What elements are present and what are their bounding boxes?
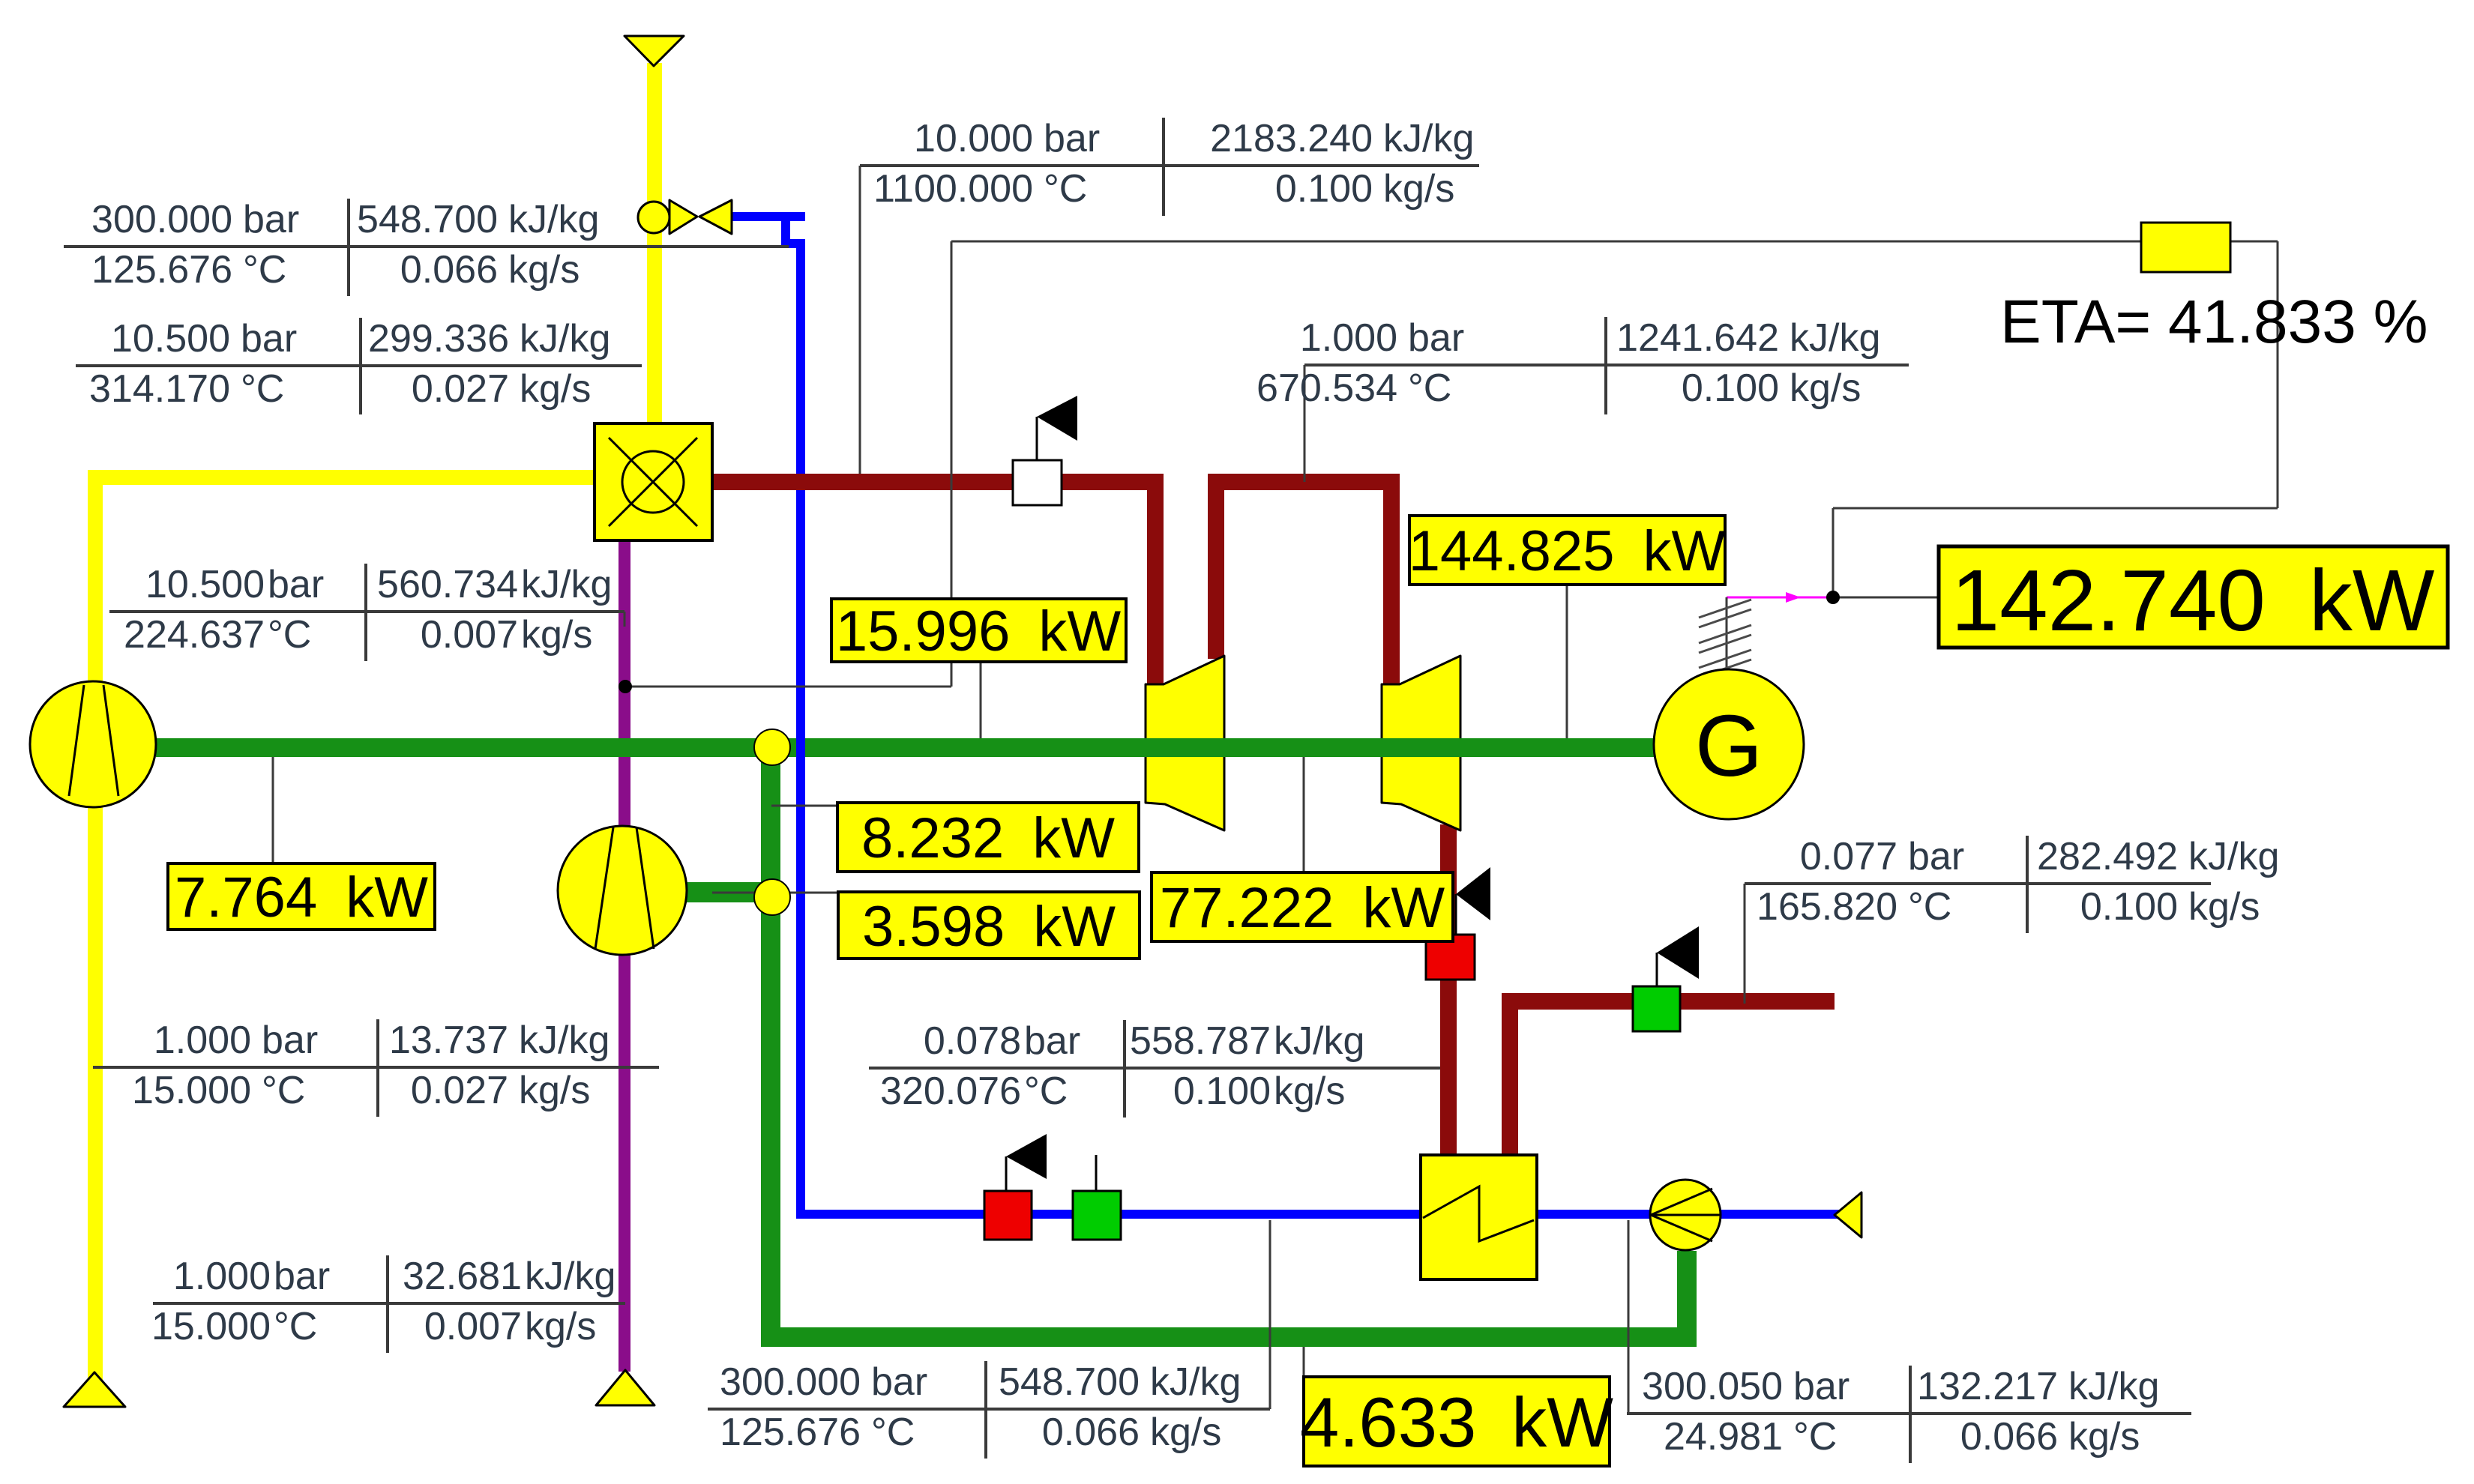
label 144.825 kW turbine2 power bbox=[1409, 516, 1726, 585]
svg-text:4.633 kW: 4.633 kW bbox=[1300, 1383, 1613, 1462]
node shaft junction yellow circle 1 bbox=[754, 729, 790, 765]
wire green feedwater bottom horizontal bbox=[761, 1327, 1697, 1347]
svg-text:°C: °C bbox=[1044, 167, 1087, 211]
condenser box bbox=[1421, 1155, 1537, 1279]
node measurement line B10 divider bbox=[1909, 1366, 1912, 1463]
node measurement line B4 underline bbox=[1304, 364, 1909, 367]
svg-text:558.787: 558.787 bbox=[1130, 1019, 1271, 1063]
wire B3 drop line to flue pipe bbox=[859, 166, 861, 474]
svg-text:kJ/kg: kJ/kg bbox=[520, 317, 610, 361]
node measurement line B8 underline bbox=[869, 1067, 1440, 1070]
svg-text:125.676: 125.676 bbox=[91, 248, 232, 292]
node measurement line B3 divider bbox=[1162, 118, 1165, 216]
green valve on reheat pipe bbox=[1633, 986, 1680, 1031]
pump circle bbox=[1650, 1180, 1721, 1250]
label 4.633 kW pump power bbox=[1300, 1377, 1613, 1466]
node measurement line B9 underline bbox=[708, 1408, 1270, 1411]
node stream values B4 bbox=[1256, 316, 1880, 410]
node stream values B6 bbox=[132, 1019, 610, 1112]
svg-text:0.066: 0.066 bbox=[400, 248, 498, 292]
yellow triangle exhaust sink bottom bbox=[596, 1370, 654, 1405]
svg-text:300.000: 300.000 bbox=[91, 198, 232, 241]
wire green branch vertical bbox=[761, 747, 780, 1337]
wire dark red pipe turbine1 outlet up bbox=[1208, 474, 1224, 659]
wire label line green branch to 8.232 label bbox=[771, 805, 840, 807]
node measurement line B11 underline bbox=[1745, 882, 2211, 885]
node measurement line B5 divider bbox=[364, 564, 367, 661]
wire dark red pipe down to turbine 2 bbox=[1383, 482, 1400, 686]
wire label line feedwater pipe to 4.633 label bbox=[1303, 1347, 1305, 1379]
node black dot generator power node bbox=[1826, 591, 1840, 604]
svg-text:kg/s: kg/s bbox=[2188, 885, 2260, 929]
node stream values B10 bbox=[1642, 1365, 2159, 1459]
flag on white valve bbox=[1037, 396, 1077, 460]
svg-text:125.676: 125.676 bbox=[720, 1411, 861, 1454]
node stream values B11 bbox=[1757, 835, 2279, 929]
svg-text:0.027: 0.027 bbox=[412, 367, 509, 411]
svg-text:320.076: 320.076 bbox=[880, 1070, 1021, 1113]
wire efficiency meter right vertical bbox=[2277, 241, 2279, 508]
fuel valve bowtie bbox=[669, 200, 732, 234]
node measurement line B7 divider bbox=[386, 1255, 389, 1353]
svg-text:1.000: 1.000 bbox=[173, 1255, 271, 1298]
svg-text:548.700: 548.700 bbox=[357, 198, 498, 241]
node measurement line B4 divider bbox=[1604, 317, 1607, 414]
wire label line turbine2 power to shaft bbox=[1566, 585, 1568, 738]
label 15.996 kW turbine1 extraction power bbox=[831, 599, 1126, 663]
svg-text:kg/s: kg/s bbox=[1274, 1070, 1345, 1113]
svg-text:0.077: 0.077 bbox=[1800, 835, 1897, 878]
yellow triangle water source right bbox=[1835, 1192, 1861, 1237]
wire B4 drop line to reheat pipe bbox=[1304, 365, 1306, 482]
svg-text:10.500: 10.500 bbox=[111, 317, 230, 361]
svg-text:7.764 kW: 7.764 kW bbox=[175, 866, 428, 929]
wire dark red pipe condenser outlet up bbox=[1502, 1001, 1518, 1155]
wire blue water pipe upper vertical bbox=[781, 212, 790, 248]
yellow triangle air source bottom left bbox=[64, 1372, 125, 1407]
svg-text:10.500: 10.500 bbox=[145, 563, 265, 606]
svg-text:0.078: 0.078 bbox=[924, 1019, 1021, 1063]
node measurement line B1 divider bbox=[347, 199, 350, 296]
svg-text:282.492: 282.492 bbox=[2037, 835, 2178, 878]
wire dark red pipe reheat horizontal to end bbox=[1502, 993, 1835, 1010]
svg-text:kg/s: kg/s bbox=[525, 1305, 596, 1348]
wire green shaft horizontal bbox=[156, 738, 1661, 757]
svg-text:kg/s: kg/s bbox=[1790, 367, 1861, 410]
svg-text:G: G bbox=[1695, 697, 1763, 794]
node measurement line B8 divider bbox=[1123, 1020, 1126, 1117]
svg-text:kJ/kg: kJ/kg bbox=[519, 1019, 610, 1062]
svg-text:°C: °C bbox=[1408, 367, 1451, 410]
svg-text:15.000: 15.000 bbox=[151, 1305, 271, 1348]
svg-text:°C: °C bbox=[241, 367, 284, 411]
wire yellow fuel pipe vertical top bbox=[647, 63, 662, 423]
svg-text:0.100: 0.100 bbox=[1173, 1070, 1271, 1113]
svg-text:2183.240: 2183.240 bbox=[1210, 117, 1373, 160]
wire green pump riser vertical bbox=[1677, 1251, 1697, 1347]
wire green stub compressor2 to node bbox=[683, 882, 772, 902]
svg-text:77.222 kW: 77.222 kW bbox=[1160, 876, 1445, 940]
svg-text:15.996 kW: 15.996 kW bbox=[836, 600, 1121, 663]
node measurement line B2 divider bbox=[359, 318, 362, 414]
ground hatch marks above generator bbox=[1699, 600, 1751, 678]
yellow triangle fuel source top bbox=[624, 36, 684, 66]
svg-text:kg/s: kg/s bbox=[508, 248, 580, 292]
wire efficiency meter left vertical to purple pipe bbox=[951, 241, 953, 687]
wire B9 line up to blue pipe bbox=[1269, 1220, 1271, 1409]
flag on red exhaust valve bbox=[1456, 867, 1490, 935]
svg-text:kJ/kg: kJ/kg bbox=[1150, 1360, 1241, 1404]
node shaft junction yellow circle 2 bbox=[754, 879, 790, 915]
node stream values B2 bbox=[89, 317, 610, 411]
wire dark red flue gas pipe from combustion chamber bbox=[712, 474, 1164, 490]
svg-text:548.700: 548.700 bbox=[999, 1360, 1140, 1404]
flag on red condensate valve bbox=[1006, 1134, 1047, 1191]
node measurement line B3 underline bbox=[860, 164, 1479, 167]
svg-text:bar: bar bbox=[1908, 835, 1964, 878]
svg-text:kg/s: kg/s bbox=[519, 1069, 590, 1112]
svg-text:142.740 kW: 142.740 kW bbox=[1951, 552, 2435, 649]
wire label line node2 to 3.598 label bbox=[712, 892, 840, 894]
svg-text:kg/s: kg/s bbox=[2068, 1415, 2140, 1459]
node measurement line B7 underline bbox=[153, 1302, 625, 1305]
node stream values B3 bbox=[873, 117, 1474, 211]
svg-text:0.066: 0.066 bbox=[1042, 1411, 1140, 1454]
svg-text:1100.000: 1100.000 bbox=[873, 167, 1033, 211]
svg-text:bar: bar bbox=[243, 198, 299, 241]
svg-text:bar: bar bbox=[241, 317, 297, 361]
wire B11 drop line to exhaust steam pipe end bbox=[1744, 884, 1746, 1004]
svg-text:0.007: 0.007 bbox=[424, 1305, 522, 1348]
svg-text:0.066: 0.066 bbox=[1960, 1415, 2058, 1459]
wire efficiency meter drop to power node bbox=[1832, 508, 1835, 597]
red valve on condensate line bbox=[984, 1191, 1032, 1240]
svg-text:300.050: 300.050 bbox=[1642, 1365, 1783, 1408]
svg-text:kJ/kg: kJ/kg bbox=[2188, 835, 2279, 878]
node measurement line B2 underline bbox=[76, 364, 642, 367]
magenta arrow tick on generator power line bbox=[1786, 592, 1801, 603]
wire generator top vertical line bbox=[1726, 597, 1728, 671]
node measurement line B9 divider bbox=[984, 1361, 987, 1459]
svg-text:°C: °C bbox=[274, 1305, 317, 1348]
svg-text:kg/s: kg/s bbox=[1150, 1411, 1221, 1454]
white square valve on flue pipe bbox=[1013, 460, 1062, 505]
svg-text:°C: °C bbox=[1024, 1070, 1068, 1113]
svg-text:1.000: 1.000 bbox=[1300, 316, 1397, 360]
label 8.232 kW branch power bbox=[837, 803, 1139, 872]
red valve on turbine exhaust pipe bbox=[1426, 935, 1475, 980]
efficiency meter yellow box bbox=[2141, 223, 2230, 272]
svg-text:13.737: 13.737 bbox=[389, 1019, 508, 1062]
svg-text:1241.642: 1241.642 bbox=[1616, 316, 1779, 360]
node black dot on purple pipe bbox=[618, 680, 632, 693]
svg-text:3.598 kW: 3.598 kW bbox=[862, 895, 1116, 959]
wire dark red pipe horizontal between turbines bbox=[1208, 474, 1400, 490]
wire label line turbine1 power to shaft bbox=[980, 662, 982, 738]
svg-text:24.981: 24.981 bbox=[1664, 1415, 1783, 1459]
flag on green reheat valve bbox=[1657, 926, 1699, 986]
wire blue condensate bottom horizontal bbox=[796, 1210, 1841, 1219]
svg-text:15.000: 15.000 bbox=[132, 1069, 251, 1112]
node measurement line B1 underline bbox=[64, 245, 789, 248]
svg-text:kg/s: kg/s bbox=[520, 367, 591, 411]
svg-text:bar: bar bbox=[268, 563, 324, 606]
svg-text:0.027: 0.027 bbox=[411, 1069, 508, 1112]
svg-text:kJ/kg: kJ/kg bbox=[1790, 316, 1880, 360]
wire efficiency meter horizontal line bbox=[951, 241, 2141, 243]
node stream values B5 bbox=[124, 563, 612, 657]
turbine T2 bbox=[1382, 656, 1460, 830]
node stream values B8 bbox=[880, 1019, 1364, 1113]
svg-text:0.100: 0.100 bbox=[1682, 367, 1779, 410]
svg-text:299.336: 299.336 bbox=[368, 317, 509, 361]
wire efficiency meter horizontal to purple pipe node bbox=[625, 686, 951, 688]
svg-text:0.007: 0.007 bbox=[421, 613, 518, 657]
node stream values B7 bbox=[151, 1255, 616, 1348]
wire purple exhaust pipe vertical bbox=[618, 540, 630, 1372]
wire label line shaft to 7.764 label bbox=[272, 757, 274, 863]
wire label line shaft to 77.222 label bbox=[1303, 757, 1305, 872]
svg-text:10.000: 10.000 bbox=[914, 117, 1033, 160]
wire blue water pipe jog bbox=[781, 239, 805, 248]
wire efficiency meter horizontal toward generator node bbox=[1833, 507, 2278, 510]
svg-text:kJ/kg: kJ/kg bbox=[525, 1255, 616, 1298]
svg-text:ETA= 41.833 %: ETA= 41.833 % bbox=[2000, 288, 2428, 356]
svg-text:°C: °C bbox=[871, 1411, 915, 1454]
svg-text:8.232 kW: 8.232 kW bbox=[861, 806, 1115, 870]
svg-text:224.637: 224.637 bbox=[124, 613, 265, 657]
svg-text:bar: bar bbox=[1024, 1019, 1080, 1063]
svg-text:314.170: 314.170 bbox=[89, 367, 230, 411]
svg-text:144.825 kW: 144.825 kW bbox=[1409, 519, 1726, 583]
svg-text:kJ/kg: kJ/kg bbox=[1383, 117, 1474, 160]
node measurement line B6 divider bbox=[376, 1019, 379, 1117]
wire B5 tick at purple pipe bbox=[624, 612, 626, 627]
wire efficiency meter line box to corner bbox=[2230, 241, 2278, 243]
svg-text:kJ/kg: kJ/kg bbox=[508, 198, 599, 241]
svg-text:1.000: 1.000 bbox=[154, 1019, 251, 1062]
svg-text:kJ/kg: kJ/kg bbox=[1274, 1019, 1364, 1063]
wire yellow air-inlet pipe vertical left bbox=[88, 470, 103, 1383]
svg-text:670.534: 670.534 bbox=[1256, 367, 1397, 410]
svg-text:132.217: 132.217 bbox=[1917, 1365, 2058, 1408]
wire green shaft overlay across turbines bbox=[1125, 738, 1484, 757]
label 142.740 kW net power output bbox=[1939, 546, 2448, 649]
svg-text:kJ/kg: kJ/kg bbox=[2068, 1365, 2159, 1408]
svg-text:0.100: 0.100 bbox=[2080, 885, 2178, 929]
combustion chamber box bbox=[595, 423, 712, 540]
svg-text:32.681: 32.681 bbox=[403, 1255, 522, 1298]
label 3.598 kW compressor2 power bbox=[838, 892, 1140, 959]
wire blue water pipe top horizontal from valve bbox=[732, 212, 805, 221]
wire black line node to power label bbox=[1839, 597, 1939, 599]
label 77.222 kW steam turbine power bbox=[1152, 872, 1453, 941]
compressor C1 circle bbox=[30, 681, 156, 807]
node measurement line B5 underline bbox=[109, 610, 624, 613]
svg-text:°C: °C bbox=[268, 613, 311, 657]
svg-text:560.734: 560.734 bbox=[377, 563, 518, 606]
node stream values B1 bbox=[91, 198, 599, 292]
svg-text:°C: °C bbox=[243, 248, 286, 292]
svg-text:bar: bar bbox=[1408, 316, 1464, 360]
svg-text:kg/s: kg/s bbox=[521, 613, 592, 657]
svg-text:bar: bar bbox=[262, 1019, 318, 1062]
svg-text:bar: bar bbox=[871, 1360, 927, 1404]
node measurement line B11 divider bbox=[2026, 836, 2029, 933]
svg-text:kJ/kg: kJ/kg bbox=[521, 563, 612, 606]
label 7.764 kW compressor1 power bbox=[168, 863, 435, 929]
wire blue water pipe main vertical bbox=[796, 239, 805, 1219]
svg-text:bar: bar bbox=[1793, 1365, 1850, 1408]
line above green condensate valve bbox=[1095, 1155, 1098, 1191]
svg-text:°C: °C bbox=[1908, 885, 1951, 929]
generator G circle bbox=[1654, 669, 1804, 819]
fuel valve circle bbox=[638, 202, 669, 233]
svg-text:bar: bar bbox=[274, 1255, 330, 1298]
node measurement line B10 underline bbox=[1627, 1412, 2191, 1415]
svg-text:°C: °C bbox=[262, 1069, 305, 1112]
svg-text:300.000: 300.000 bbox=[720, 1360, 861, 1404]
svg-text:0.100: 0.100 bbox=[1275, 167, 1373, 211]
compressor C2 circle bbox=[558, 826, 687, 955]
wire magenta generator power line bbox=[1727, 597, 1827, 599]
wire B10 line up to blue pipe bbox=[1628, 1220, 1630, 1414]
turbine T1 bbox=[1146, 656, 1224, 830]
wire dark red pipe down to turbine 1 bbox=[1147, 482, 1164, 686]
svg-text:165.820: 165.820 bbox=[1757, 885, 1897, 929]
svg-text:kg/s: kg/s bbox=[1383, 167, 1454, 211]
svg-text:°C: °C bbox=[1793, 1415, 1837, 1459]
wire yellow air pipe horizontal to combustion chamber bbox=[88, 470, 595, 485]
svg-text:bar: bar bbox=[1044, 117, 1100, 160]
node measurement line B6 underline bbox=[93, 1066, 659, 1069]
node stream values B9 bbox=[720, 1360, 1241, 1454]
green valve on condensate line bbox=[1073, 1191, 1121, 1240]
wire dark red pipe turbine2 outlet down to condenser bbox=[1440, 824, 1457, 1155]
